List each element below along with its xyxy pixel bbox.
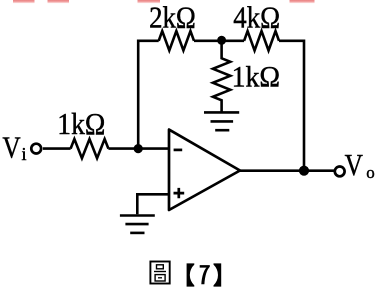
svg-text:V: V [345, 148, 363, 182]
svg-text:i: i [22, 144, 27, 164]
svg-text:1kΩ: 1kΩ [232, 60, 281, 93]
svg-text:1kΩ: 1kΩ [57, 106, 105, 141]
svg-text:o: o [366, 163, 375, 182]
svg-text:V: V [2, 130, 20, 164]
svg-text:4kΩ: 4kΩ [233, 0, 280, 35]
svg-text:2kΩ: 2kΩ [149, 0, 196, 35]
